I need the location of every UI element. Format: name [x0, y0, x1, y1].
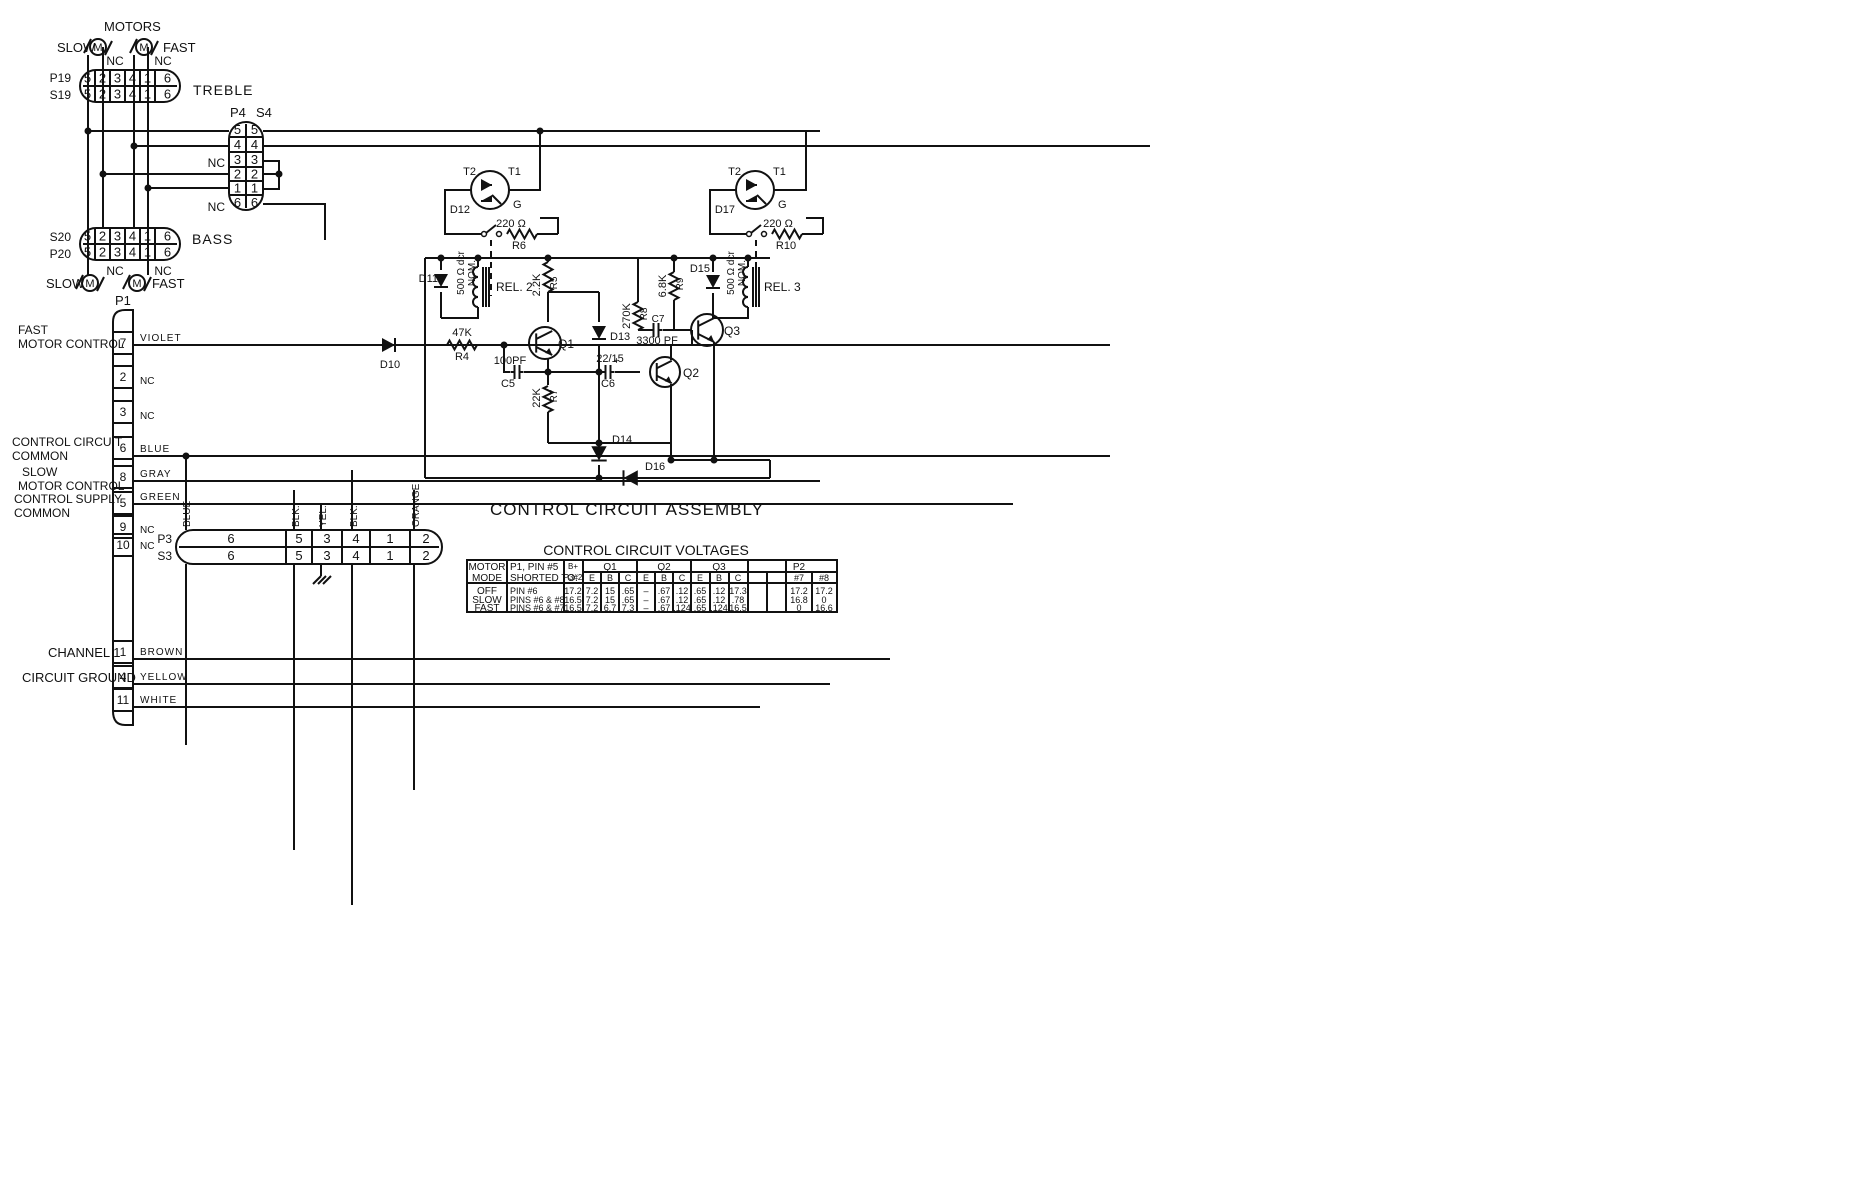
svg-text:4: 4 [352, 548, 359, 563]
svg-text:C: C [735, 573, 742, 583]
svg-text:REL. 3: REL. 3 [764, 280, 801, 294]
svg-text:NC: NC [106, 54, 124, 68]
svg-text:100PF: 100PF [494, 355, 527, 367]
svg-text:R4: R4 [455, 351, 469, 363]
svg-text:0: 0 [796, 603, 801, 613]
svg-text:4: 4 [251, 137, 258, 152]
svg-text:220 Ω: 220 Ω [496, 218, 526, 230]
svg-text:MODE: MODE [472, 573, 502, 584]
svg-text:D12: D12 [450, 204, 470, 216]
svg-text:CONTROL SUPPLY: CONTROL SUPPLY [14, 492, 122, 506]
svg-text:3: 3 [114, 87, 121, 102]
svg-text:P1: P1 [115, 293, 131, 308]
svg-text:P1, PIN #5: P1, PIN #5 [510, 562, 559, 573]
svg-text:3: 3 [234, 152, 241, 167]
svg-text:22K: 22K [531, 388, 543, 408]
svg-text:220 Ω: 220 Ω [763, 218, 793, 230]
svg-text:M: M [132, 278, 141, 290]
svg-text:S20: S20 [50, 230, 72, 244]
svg-text:MOTOR: MOTOR [468, 562, 505, 573]
svg-text:2: 2 [99, 245, 106, 260]
svg-text:270K: 270K [621, 302, 633, 328]
svg-text:CONTROL CIRCUIT ASSEMBLY: CONTROL CIRCUIT ASSEMBLY [490, 500, 764, 519]
svg-text:NC: NC [106, 264, 124, 278]
svg-text:B: B [661, 573, 667, 583]
svg-text:500 Ω dcr: 500 Ω dcr [726, 251, 737, 295]
svg-text:NOM.: NOM. [467, 260, 478, 286]
svg-text:2: 2 [234, 167, 241, 182]
svg-text:T2: T2 [463, 166, 476, 178]
svg-text:3: 3 [114, 229, 121, 244]
svg-text:10: 10 [116, 538, 130, 552]
svg-text:E: E [643, 573, 649, 583]
svg-text:PINS #6 & #7: PINS #6 & #7 [510, 603, 565, 613]
svg-text:C: C [679, 573, 686, 583]
svg-text:NC: NC [140, 525, 154, 536]
svg-text:2.2K: 2.2K [531, 273, 543, 296]
svg-text:R7: R7 [549, 389, 560, 402]
svg-text:Q1: Q1 [603, 562, 617, 573]
svg-text:C7: C7 [652, 314, 665, 325]
svg-text:P3: P3 [157, 532, 172, 546]
svg-text:NC: NC [140, 411, 154, 422]
svg-text:B: B [716, 573, 722, 583]
svg-text:G: G [513, 199, 522, 211]
svg-text:R5: R5 [549, 276, 560, 289]
svg-text:NOM.: NOM. [737, 260, 748, 286]
svg-text:5: 5 [295, 548, 302, 563]
svg-text:BASS: BASS [192, 231, 233, 247]
svg-text:6.7: 6.7 [604, 603, 617, 613]
svg-text:T1: T1 [508, 166, 521, 178]
svg-text:6.8K: 6.8K [657, 274, 669, 297]
svg-text:D10: D10 [380, 359, 400, 371]
svg-text:6: 6 [164, 229, 171, 244]
svg-text:M: M [85, 278, 94, 290]
svg-text:2: 2 [422, 548, 429, 563]
svg-text:3: 3 [323, 531, 330, 546]
svg-text:7.2: 7.2 [586, 603, 599, 613]
svg-text:B+: B+ [568, 562, 578, 571]
svg-text:Q2: Q2 [657, 562, 671, 573]
svg-text:11: 11 [117, 693, 130, 707]
svg-text:22/15: 22/15 [596, 353, 624, 365]
svg-text:6: 6 [164, 87, 171, 102]
svg-text:–: – [643, 603, 648, 613]
svg-text:#7: #7 [794, 573, 804, 583]
svg-text:3: 3 [323, 548, 330, 563]
svg-text:4: 4 [129, 245, 136, 260]
svg-text:SLOW: SLOW [46, 276, 85, 291]
svg-text:FAST: FAST [474, 603, 499, 614]
svg-text:R6: R6 [512, 240, 526, 252]
svg-text:GREEN: GREEN [140, 492, 181, 503]
svg-text:5: 5 [234, 122, 241, 137]
svg-text:Q3: Q3 [724, 324, 740, 338]
svg-text:D17: D17 [715, 204, 735, 216]
svg-text:S19: S19 [50, 88, 72, 102]
svg-text:E: E [697, 573, 703, 583]
svg-text:P19: P19 [50, 71, 72, 85]
svg-text:BLK.: BLK. [291, 505, 302, 527]
svg-text:3: 3 [114, 245, 121, 260]
svg-text:NC: NC [140, 541, 154, 552]
svg-text:4: 4 [129, 71, 136, 86]
svg-text:1: 1 [120, 645, 127, 659]
svg-text:2: 2 [422, 531, 429, 546]
svg-text:4: 4 [129, 87, 136, 102]
svg-text:TREBLE: TREBLE [193, 82, 253, 98]
svg-text:47K: 47K [452, 327, 472, 339]
svg-text:16.6: 16.6 [815, 603, 833, 613]
svg-text:YELLOW: YELLOW [140, 672, 188, 683]
svg-text:3: 3 [120, 405, 127, 419]
svg-text:MOTOR CONTROL: MOTOR CONTROL [18, 479, 125, 493]
svg-text:E: E [589, 573, 595, 583]
svg-text:C: C [625, 573, 632, 583]
svg-text:NC: NC [208, 200, 226, 214]
svg-text:R10: R10 [776, 240, 796, 252]
svg-text:R9: R9 [675, 277, 686, 290]
svg-text:FAST: FAST [18, 323, 49, 337]
svg-text:NC: NC [154, 54, 172, 68]
svg-text:COMMON: COMMON [14, 506, 70, 520]
svg-text:.67: .67 [658, 603, 671, 613]
svg-text:SLOW: SLOW [22, 465, 58, 479]
svg-text:Q3: Q3 [712, 562, 726, 573]
svg-text:6: 6 [227, 548, 234, 563]
svg-text:BLUE: BLUE [140, 444, 170, 455]
svg-text:R8: R8 [639, 307, 650, 320]
svg-text:6: 6 [234, 195, 241, 210]
svg-text:16.5: 16.5 [564, 603, 582, 613]
svg-text:5: 5 [251, 122, 258, 137]
svg-text:T1: T1 [773, 166, 786, 178]
svg-text:VIOLET: VIOLET [140, 333, 182, 344]
svg-text:B: B [607, 573, 613, 583]
svg-text:S3: S3 [157, 549, 172, 563]
svg-text:C6: C6 [601, 378, 615, 390]
svg-text:7.3: 7.3 [622, 603, 635, 613]
svg-text:YEL.: YEL. [318, 505, 329, 527]
svg-text:6: 6 [227, 531, 234, 546]
svg-text:4: 4 [352, 531, 359, 546]
svg-text:P2: P2 [793, 562, 806, 573]
svg-text:D16: D16 [645, 461, 665, 473]
svg-text:CIRCUIT GROUND: CIRCUIT GROUND [22, 670, 136, 685]
svg-text:REL. 2: REL. 2 [496, 280, 533, 294]
svg-text:P4: P4 [230, 105, 246, 120]
svg-text:1: 1 [386, 548, 393, 563]
svg-text:6: 6 [251, 195, 258, 210]
svg-text:G: G [778, 199, 787, 211]
svg-text:Q1: Q1 [558, 337, 574, 351]
svg-text:Q2: Q2 [683, 366, 699, 380]
svg-text:BLK.: BLK. [349, 505, 360, 527]
svg-text:1: 1 [234, 181, 241, 196]
svg-text:6: 6 [164, 71, 171, 86]
svg-text:COMMON: COMMON [12, 449, 68, 463]
svg-text:C5: C5 [501, 378, 515, 390]
svg-text:SLOW: SLOW [57, 40, 96, 55]
svg-text:4: 4 [234, 137, 241, 152]
svg-text:4: 4 [129, 229, 136, 244]
svg-text:P20: P20 [50, 247, 72, 261]
svg-text:500 Ω dcr: 500 Ω dcr [456, 251, 467, 295]
svg-text:1: 1 [386, 531, 393, 546]
svg-text:BROWN: BROWN [140, 647, 183, 658]
svg-text:NC: NC [140, 376, 154, 387]
svg-text:D15: D15 [690, 263, 710, 275]
svg-text:3: 3 [114, 71, 121, 86]
svg-text:1: 1 [251, 181, 258, 196]
svg-text:6: 6 [164, 245, 171, 260]
svg-text:3: 3 [251, 152, 258, 167]
svg-text:P3#2: P3#2 [564, 573, 583, 582]
svg-text:T2: T2 [728, 166, 741, 178]
svg-text:16.5: 16.5 [729, 603, 747, 613]
svg-text:MOTORS: MOTORS [104, 19, 161, 34]
svg-text:FAST: FAST [152, 276, 185, 291]
svg-text:WHITE: WHITE [140, 695, 177, 706]
svg-text:D13: D13 [610, 331, 630, 343]
svg-text:2: 2 [120, 370, 127, 384]
svg-text:BLUE: BLUE [182, 501, 193, 527]
svg-text:D11: D11 [419, 273, 438, 285]
svg-text:CONTROL CIRCUIT VOLTAGES: CONTROL CIRCUIT VOLTAGES [543, 542, 749, 558]
svg-text:.124: .124 [710, 603, 728, 613]
svg-text:CONTROL CIRCUIT: CONTROL CIRCUIT [12, 435, 123, 449]
svg-text:9: 9 [120, 520, 127, 534]
svg-text:#8: #8 [819, 573, 829, 583]
svg-text:.65: .65 [694, 603, 707, 613]
svg-text:FAST: FAST [163, 40, 196, 55]
svg-text:.124: .124 [673, 603, 691, 613]
svg-text:5: 5 [295, 531, 302, 546]
svg-text:MOTOR CONTROL: MOTOR CONTROL [18, 337, 125, 351]
svg-text:D14: D14 [612, 434, 632, 446]
svg-text:ORANGE: ORANGE [411, 483, 422, 527]
svg-text:NC: NC [208, 156, 226, 170]
svg-text:CHANNEL 1: CHANNEL 1 [48, 645, 120, 660]
svg-text:S4: S4 [256, 105, 272, 120]
svg-text:GRAY: GRAY [140, 469, 172, 480]
svg-text:2: 2 [251, 167, 258, 182]
svg-text:2: 2 [99, 229, 106, 244]
